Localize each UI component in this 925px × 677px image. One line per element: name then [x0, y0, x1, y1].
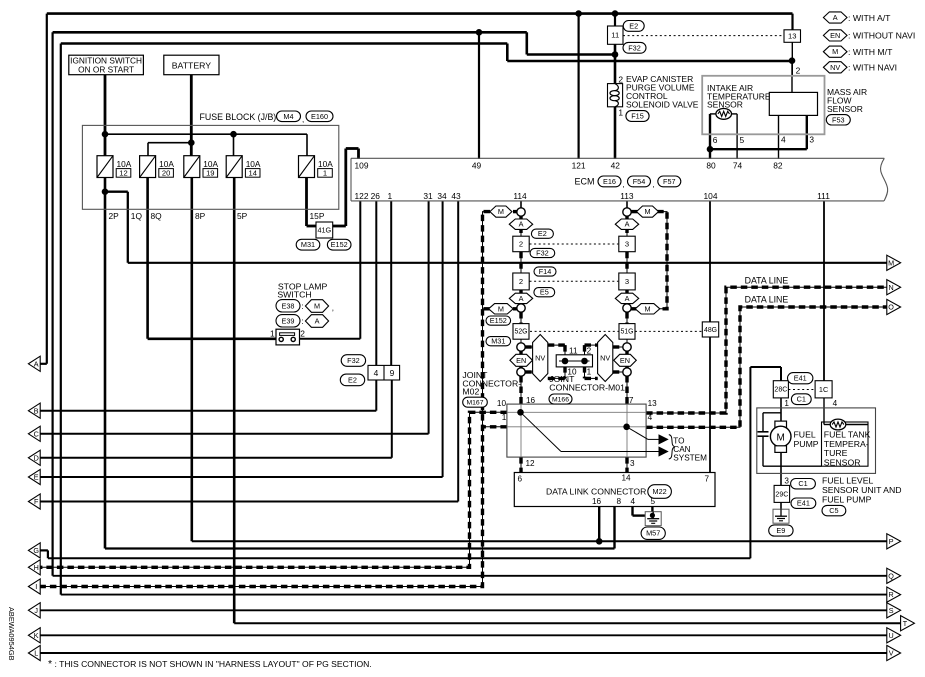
svg-text:F53: F53 [832, 115, 845, 124]
svg-text:E5: E5 [540, 288, 549, 297]
svg-text:1: 1 [270, 329, 275, 339]
svg-text:A: A [833, 13, 838, 22]
svg-text:7: 7 [629, 396, 634, 405]
svg-text:1: 1 [387, 191, 392, 201]
svg-text:E160: E160 [311, 112, 328, 121]
svg-text:A: A [34, 359, 39, 368]
svg-text:F14: F14 [539, 267, 552, 276]
svg-text:5: 5 [651, 497, 656, 506]
svg-text:14: 14 [248, 168, 256, 177]
svg-text:M: M [888, 258, 894, 267]
svg-text:1C: 1C [819, 385, 828, 394]
svg-text:2: 2 [618, 75, 623, 85]
svg-text:5: 5 [740, 135, 745, 145]
svg-text:43: 43 [451, 191, 461, 201]
svg-text:SENSOR UNIT AND: SENSOR UNIT AND [822, 485, 902, 495]
svg-text:E41: E41 [797, 499, 810, 508]
svg-text:13: 13 [648, 399, 658, 408]
svg-text:ON OR START: ON OR START [78, 64, 134, 74]
svg-text:114: 114 [513, 191, 527, 201]
svg-text:5P: 5P [237, 211, 248, 221]
svg-text:6: 6 [713, 135, 718, 145]
svg-text:: WITHOUT NAVI: : WITHOUT NAVI [848, 31, 915, 41]
svg-text:74: 74 [733, 160, 743, 170]
svg-text:2: 2 [300, 329, 305, 339]
svg-text:FUEL PUMP: FUEL PUMP [822, 495, 872, 505]
svg-text:E39: E39 [282, 316, 295, 325]
svg-text:R: R [888, 590, 893, 599]
svg-text:: WITH NAVI: : WITH NAVI [848, 63, 897, 73]
svg-text:42: 42 [611, 160, 621, 170]
svg-text:4: 4 [833, 399, 838, 408]
svg-text:M167: M167 [466, 400, 483, 407]
svg-text:E9: E9 [776, 526, 785, 535]
svg-text:113: 113 [620, 191, 634, 201]
svg-text:1: 1 [502, 413, 507, 422]
svg-text:DATA LINE: DATA LINE [745, 295, 789, 305]
svg-text:E41: E41 [794, 374, 807, 383]
svg-text:2: 2 [796, 66, 801, 76]
svg-text:A: A [315, 316, 320, 325]
svg-text:8Q: 8Q [151, 211, 163, 221]
svg-text:SENSOR: SENSOR [824, 457, 861, 467]
svg-text:C: C [34, 429, 39, 438]
svg-text:3: 3 [625, 240, 629, 249]
svg-text:28C: 28C [774, 387, 787, 394]
svg-text::: : [302, 302, 304, 311]
svg-text:,: , [653, 180, 655, 189]
svg-text:31: 31 [423, 191, 433, 201]
svg-text:26: 26 [371, 191, 381, 201]
svg-text:1: 1 [323, 168, 327, 177]
svg-text:DATA LINE: DATA LINE [745, 275, 789, 285]
svg-text:F32: F32 [347, 356, 360, 365]
svg-text:6: 6 [518, 475, 523, 484]
svg-text:,: , [623, 180, 625, 189]
svg-text:34: 34 [437, 191, 447, 201]
svg-text:FUEL: FUEL [794, 430, 816, 440]
svg-text:M22: M22 [652, 487, 666, 496]
svg-text:F57: F57 [663, 177, 676, 186]
svg-text:E16: E16 [603, 177, 616, 186]
svg-text:F54: F54 [633, 177, 646, 186]
svg-text:M: M [314, 301, 320, 310]
svg-text:A: A [625, 220, 630, 229]
svg-text:E2: E2 [629, 21, 638, 30]
svg-text:7: 7 [705, 475, 710, 484]
svg-text:M: M [644, 207, 650, 216]
svg-text:K: K [34, 631, 39, 640]
svg-text:11: 11 [569, 346, 578, 355]
svg-text:V: V [889, 649, 894, 658]
svg-text:14: 14 [622, 474, 632, 483]
svg-text:1: 1 [784, 399, 789, 408]
svg-text:4: 4 [631, 497, 636, 506]
svg-text:BATTERY: BATTERY [172, 60, 211, 70]
svg-text:NV: NV [830, 63, 840, 72]
svg-text:T: T [903, 619, 908, 628]
svg-text:2: 2 [587, 346, 592, 355]
svg-text:3: 3 [809, 135, 814, 145]
svg-text:: WITH A/T: : WITH A/T [848, 13, 891, 23]
svg-text:29C: 29C [775, 491, 788, 498]
svg-text:CONNECTOR-M01: CONNECTOR-M01 [549, 382, 625, 392]
svg-text:,: , [302, 115, 304, 124]
svg-text:O: O [888, 303, 894, 312]
svg-text:F: F [34, 497, 39, 506]
svg-text:16: 16 [526, 396, 536, 405]
svg-text:E38: E38 [282, 301, 295, 310]
svg-text:ECM: ECM [575, 177, 595, 187]
svg-text:80: 80 [706, 160, 716, 170]
svg-text:15P: 15P [310, 211, 325, 221]
svg-text:19: 19 [206, 168, 214, 177]
svg-text:ABEWA0954GB: ABEWA0954GB [7, 607, 16, 661]
svg-text:E2: E2 [538, 229, 547, 238]
svg-text:C1: C1 [797, 395, 806, 404]
svg-text:F32: F32 [536, 248, 549, 257]
svg-text:3: 3 [630, 459, 635, 468]
svg-text:52G: 52G [514, 329, 527, 336]
svg-text:41G: 41G [317, 225, 331, 234]
svg-text:2: 2 [519, 277, 523, 286]
svg-text:P: P [889, 537, 894, 546]
svg-text:M57: M57 [646, 529, 660, 538]
svg-text:G: G [33, 546, 39, 555]
svg-text:N: N [888, 283, 893, 292]
svg-text:: WITH M/T: : WITH M/T [848, 47, 893, 57]
svg-text:11: 11 [611, 31, 619, 40]
svg-text:111: 111 [817, 191, 830, 201]
svg-text:1: 1 [618, 108, 623, 118]
svg-text:F32: F32 [628, 43, 641, 52]
svg-text:121: 121 [572, 160, 586, 170]
svg-text:* : THIS CONNECTOR IS NOT SHOW: * : THIS CONNECTOR IS NOT SHOWN IN "HARN… [48, 658, 372, 670]
svg-text:DATA LINK CONNECTOR: DATA LINK CONNECTOR [546, 487, 646, 497]
svg-text:J: J [34, 606, 38, 615]
svg-text:M31: M31 [491, 337, 505, 346]
svg-text:A: A [519, 220, 524, 229]
svg-text:S: S [889, 606, 894, 615]
svg-text:M: M [644, 304, 650, 313]
svg-text:2P: 2P [109, 211, 120, 221]
svg-text:M: M [498, 207, 504, 216]
svg-text:L: L [34, 649, 38, 658]
svg-text:4: 4 [648, 413, 653, 422]
svg-text:I: I [35, 582, 37, 591]
svg-text:PUMP: PUMP [794, 439, 819, 449]
svg-text::: : [302, 317, 304, 326]
svg-text:F15: F15 [631, 111, 644, 120]
svg-text:B: B [34, 406, 39, 415]
svg-text:EN: EN [830, 31, 840, 40]
svg-text:U: U [888, 631, 893, 640]
svg-text:M02: M02 [462, 387, 479, 397]
svg-text:FUEL LEVEL: FUEL LEVEL [822, 476, 874, 486]
svg-text:SYSTEM: SYSTEM [673, 454, 707, 463]
svg-text:,: , [332, 304, 334, 313]
svg-text:SWITCH: SWITCH [277, 290, 311, 300]
svg-text:1: 1 [587, 368, 592, 377]
svg-text:48G: 48G [704, 327, 717, 334]
svg-text:D: D [34, 453, 39, 462]
svg-text:SENSOR: SENSOR [827, 104, 863, 114]
svg-text:20: 20 [162, 168, 170, 177]
svg-text:12: 12 [119, 168, 127, 177]
svg-text:2: 2 [519, 240, 523, 249]
svg-text:M: M [498, 304, 504, 313]
svg-text:E: E [34, 473, 39, 482]
svg-text:122: 122 [355, 191, 369, 201]
svg-text:4: 4 [374, 368, 379, 378]
svg-text:8P: 8P [195, 211, 206, 221]
svg-text:82: 82 [773, 160, 783, 170]
svg-text:104: 104 [704, 191, 718, 201]
svg-text:H: H [34, 563, 39, 572]
svg-text:E2: E2 [348, 375, 357, 384]
svg-text:10: 10 [497, 399, 507, 408]
svg-text:8: 8 [617, 497, 622, 506]
svg-text:EN: EN [620, 356, 630, 365]
svg-text:A: A [625, 294, 630, 303]
svg-text:M: M [777, 432, 785, 443]
svg-text:NV: NV [535, 353, 545, 362]
svg-text:EN: EN [516, 356, 526, 365]
svg-text:3: 3 [784, 477, 789, 486]
svg-text:C5: C5 [829, 506, 838, 515]
svg-text:E152: E152 [490, 316, 507, 325]
svg-text:12: 12 [526, 459, 536, 468]
svg-text:M166: M166 [552, 396, 569, 403]
svg-text:M4: M4 [283, 112, 293, 121]
svg-text:51G: 51G [620, 329, 633, 336]
svg-text:C1: C1 [798, 479, 807, 488]
svg-text:109: 109 [355, 160, 369, 170]
svg-text:13: 13 [788, 32, 796, 41]
svg-text:M: M [832, 47, 838, 56]
svg-text:NV: NV [600, 353, 610, 362]
svg-text:M31: M31 [301, 240, 315, 249]
svg-text:Q: Q [888, 571, 894, 580]
svg-text:49: 49 [472, 160, 482, 170]
svg-text:FUSE BLOCK (J/B): FUSE BLOCK (J/B) [200, 112, 277, 122]
svg-text:1Q: 1Q [131, 211, 143, 221]
svg-text:A: A [519, 294, 524, 303]
svg-text:SOLENOID VALVE: SOLENOID VALVE [626, 99, 699, 109]
svg-text:4: 4 [781, 135, 786, 145]
svg-text:E152: E152 [331, 240, 348, 249]
svg-text:3: 3 [625, 277, 629, 286]
svg-text:16: 16 [592, 497, 602, 506]
svg-text:9: 9 [390, 368, 395, 378]
